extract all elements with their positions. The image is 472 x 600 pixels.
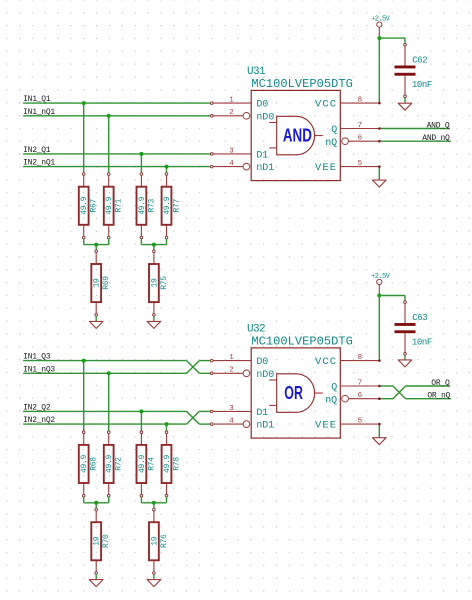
wire IN2_nQ1 pulldown — [166, 167, 168, 174]
pin end dot — [378, 423, 381, 426]
junction — [377, 36, 381, 40]
junction — [82, 359, 86, 363]
wire resistor join right — [108, 239, 110, 245]
svg-text:R67: R67 — [90, 199, 99, 213]
pin end dot — [378, 102, 381, 105]
OR gate symbol inside U32 — [269, 374, 323, 413]
U31 pin 8 VCC — [315, 97, 379, 111]
U32 pin 1 D0 — [210, 354, 268, 368]
wire resistor join left — [83, 239, 85, 245]
wire to U32 pin — [199, 360, 211, 362]
wire +2.5V branch to C63 — [379, 295, 405, 297]
wire to U32 pin — [199, 410, 211, 412]
wire IN2_nQ2 pulldown — [166, 424, 168, 432]
wire IN1_Q3 pulldown — [83, 361, 85, 433]
svg-text:5: 5 — [358, 160, 363, 168]
wire resistor join left — [140, 497, 142, 503]
wire resistor join left — [140, 239, 142, 245]
resistor R74 49.9 — [137, 431, 157, 497]
svg-text:Q: Q — [331, 383, 337, 394]
svg-text:3: 3 — [229, 147, 234, 155]
power +2.5V PWR1 — [371, 15, 391, 38]
U31 pin 6 nQ — [325, 135, 379, 149]
svg-text:4: 4 — [229, 418, 234, 426]
wire C63 to ground — [404, 355, 406, 360]
svg-text:10nF: 10nF — [412, 337, 432, 347]
wire resistor join left — [83, 497, 85, 503]
svg-text:2: 2 — [229, 367, 234, 375]
resistor R78 49.9 — [162, 431, 182, 497]
wire +2.5V to U31 VCC — [378, 38, 380, 103]
junction — [165, 165, 169, 169]
svg-text:nD0: nD0 — [256, 370, 274, 381]
U32 pin 8 VCC — [315, 354, 379, 368]
wire IN1_Q1 pulldown — [83, 103, 85, 174]
U31 pin 1 D0 — [210, 97, 268, 111]
junction — [82, 101, 86, 105]
wire to OR_Q — [406, 385, 450, 387]
wire +2.5V to U32 VCC — [378, 296, 380, 361]
ground — [147, 580, 161, 587]
svg-text:49.9: 49.9 — [163, 454, 172, 473]
wire resistor join bar — [141, 244, 166, 246]
wire resistor join right — [166, 239, 168, 245]
svg-text:8: 8 — [358, 354, 363, 362]
ground — [89, 580, 103, 587]
wire IN2_nQ2 crossover — [187, 411, 200, 424]
wire IN2_Q2 — [23, 410, 187, 412]
capacitor C63 10nF — [395, 301, 432, 355]
svg-text:VCC: VCC — [315, 99, 337, 111]
wire IN1_nQ1 to U31 — [23, 115, 212, 117]
svg-text:19: 19 — [150, 278, 159, 288]
pin end dot — [378, 397, 381, 400]
junction — [94, 501, 98, 505]
svg-text:4: 4 — [229, 160, 234, 168]
wire IN1_nQ3 — [23, 372, 187, 374]
junction — [94, 243, 98, 247]
svg-text:1: 1 — [229, 354, 234, 362]
svg-text:49.9: 49.9 — [138, 196, 147, 215]
U31 pin 7 Q — [331, 122, 379, 136]
wire C62 to ground — [404, 98, 406, 104]
svg-text:Q: Q — [331, 125, 337, 136]
pin end dot — [378, 165, 381, 168]
svg-text:VEE: VEE — [315, 162, 337, 174]
svg-text:nD1: nD1 — [256, 421, 274, 432]
svg-text:R71: R71 — [115, 199, 124, 213]
pin end dot — [378, 127, 381, 130]
svg-text:5: 5 — [358, 418, 363, 426]
wire to U32 pin — [199, 423, 211, 425]
resistor R69 19 — [91, 250, 111, 316]
resistor R76 19 — [149, 508, 169, 574]
svg-text:R70: R70 — [102, 534, 111, 548]
svg-text:VEE: VEE — [315, 420, 337, 432]
junction — [139, 152, 143, 156]
resistor R70 19 — [91, 508, 111, 574]
U32 pin 6 nQ — [325, 392, 379, 406]
wire IN1_nQ1 pulldown — [108, 116, 110, 174]
U31 pin 5 VEE — [315, 160, 379, 174]
wire IN2_nQ1 to U31 — [23, 166, 212, 168]
svg-text:D1: D1 — [256, 151, 268, 162]
svg-text:C62: C62 — [412, 55, 427, 65]
wire join to termination resistor — [95, 245, 97, 252]
wire resistor join bar — [84, 244, 109, 246]
U32 pin 3 D1 — [210, 405, 268, 419]
svg-text:D0: D0 — [256, 100, 268, 111]
ground — [373, 180, 387, 187]
svg-text:R78: R78 — [172, 457, 181, 471]
svg-text:AND_Q: AND_Q — [427, 122, 450, 131]
ground — [398, 103, 412, 110]
svg-text:R74: R74 — [147, 457, 156, 471]
resistor R68 49.9 — [79, 431, 99, 497]
U32 pin 2 nD0 — [210, 367, 274, 381]
svg-text:OR_nQ: OR_nQ — [427, 392, 450, 401]
junction — [152, 501, 156, 505]
wire join to termination resistor — [95, 503, 97, 510]
wire R75 to ground — [153, 316, 155, 321]
junction — [139, 409, 143, 413]
resistor R75 19 — [149, 250, 169, 316]
svg-text:OR: OR — [284, 383, 303, 403]
wire U32 nQ stub — [379, 398, 393, 400]
wire IN2_nQ2 — [23, 423, 187, 425]
ground — [373, 438, 387, 445]
svg-text:49.9: 49.9 — [163, 196, 172, 215]
svg-text:19: 19 — [93, 536, 102, 546]
wire join to termination resistor — [153, 503, 155, 510]
svg-text:10nF: 10nF — [412, 80, 432, 90]
svg-text:D0: D0 — [256, 357, 268, 368]
capacitor C62 10nF — [395, 43, 432, 97]
svg-text:R75: R75 — [160, 276, 169, 290]
IC U32 MC100LVEP05DTG body — [251, 348, 340, 438]
resistor R71 49.9 — [104, 173, 124, 239]
svg-text:nD0: nD0 — [256, 112, 274, 123]
wire IN1_nQ3 pulldown — [108, 373, 110, 432]
svg-text:49.9: 49.9 — [105, 454, 114, 473]
wire Q crossover — [393, 386, 406, 399]
svg-text:49.9: 49.9 — [138, 454, 147, 473]
svg-text:AND_nQ: AND_nQ — [422, 134, 450, 143]
svg-text:3: 3 — [229, 405, 234, 413]
svg-text:MC100LVEP05DTG: MC100LVEP05DTG — [251, 334, 353, 348]
svg-text:19: 19 — [150, 536, 159, 546]
wire IN2_Q1 pulldown — [140, 154, 142, 174]
svg-text:2: 2 — [229, 109, 234, 117]
wire IN1_Q3 — [23, 360, 187, 362]
svg-text:49.9: 49.9 — [105, 196, 114, 215]
junction — [152, 243, 156, 247]
svg-text:49.9: 49.9 — [80, 196, 89, 215]
AND gate symbol inside U31 — [269, 116, 323, 155]
svg-text:1: 1 — [229, 97, 234, 105]
svg-text:7: 7 — [358, 379, 363, 387]
power +2.5V PWR2 — [371, 273, 391, 296]
pin end dot — [378, 385, 381, 388]
svg-text:R77: R77 — [172, 199, 181, 213]
wire join to termination resistor — [153, 245, 155, 252]
U32 pin 4 nD1 — [210, 418, 274, 432]
wire IN2_Q2 pulldown — [140, 411, 142, 432]
pin end dot — [378, 140, 381, 143]
junction — [165, 422, 169, 426]
wire down to C62 — [404, 38, 406, 45]
wire resistor join bar — [84, 502, 109, 504]
wire to OR_nQ — [406, 398, 451, 400]
svg-text:nQ: nQ — [325, 138, 337, 149]
wire IN2_Q2 crossover — [187, 411, 200, 424]
svg-text:OR_Q: OR_Q — [431, 379, 450, 388]
wire U32 VEE to ground — [378, 424, 380, 438]
svg-text:C63: C63 — [412, 313, 427, 323]
wire resistor join right — [166, 497, 168, 503]
svg-text:D1: D1 — [256, 408, 268, 419]
U32 pin 7 Q — [331, 379, 379, 393]
resistor R77 49.9 — [162, 173, 182, 239]
U31 pin 2 nD0 — [210, 109, 274, 123]
IC U31 MC100LVEP05DTG body — [251, 90, 340, 180]
junction — [107, 114, 111, 118]
svg-text:VCC: VCC — [315, 356, 337, 368]
svg-text:49.9: 49.9 — [80, 454, 89, 473]
wire +2.5V branch to C62 — [379, 37, 405, 39]
resistor R73 49.9 — [137, 173, 157, 239]
junction — [377, 294, 381, 298]
svg-text:7: 7 — [358, 122, 363, 130]
wire nQ crossover — [393, 386, 406, 399]
junction — [107, 371, 111, 375]
svg-text:nQ: nQ — [325, 395, 337, 406]
wire IN1_Q3 crossover — [187, 361, 200, 374]
wire R69 to ground — [95, 316, 97, 321]
svg-text:MC100LVEP05DTG: MC100LVEP05DTG — [251, 77, 353, 91]
svg-text:6: 6 — [358, 392, 363, 400]
svg-text:R68: R68 — [90, 457, 99, 471]
wire U31 Q to AND_Q — [379, 128, 450, 130]
svg-text:R72: R72 — [115, 457, 124, 471]
svg-text:R69: R69 — [102, 276, 111, 290]
wire U31 VEE to ground — [378, 167, 380, 181]
svg-text:R73: R73 — [147, 199, 156, 213]
svg-text:AND: AND — [283, 126, 312, 146]
resistor R72 49.9 — [104, 431, 124, 497]
svg-text:19: 19 — [93, 278, 102, 288]
ground — [89, 321, 103, 328]
pin end dot — [378, 359, 381, 362]
U31 pin 3 D1 — [210, 147, 268, 161]
wire IN1_Q1 to U31 — [23, 102, 212, 104]
resistor R67 49.9 — [79, 173, 99, 239]
svg-text:R76: R76 — [160, 534, 169, 548]
ground — [147, 321, 161, 328]
wire to U32 pin — [199, 372, 211, 374]
svg-text:6: 6 — [358, 135, 363, 143]
wire down to C63 — [404, 296, 406, 303]
wire IN1_nQ3 crossover — [187, 361, 200, 374]
wire U31 nQ to AND_nQ — [379, 140, 451, 142]
svg-text:8: 8 — [358, 97, 363, 105]
ground — [398, 360, 412, 367]
U32 pin 5 VEE — [315, 418, 379, 432]
wire R76 to ground — [153, 574, 155, 579]
wire resistor join right — [108, 497, 110, 503]
wire IN2_Q1 to U31 — [23, 153, 212, 155]
wire U32 Q stub — [379, 385, 393, 387]
svg-text:nD1: nD1 — [256, 163, 274, 174]
wire resistor join bar — [141, 502, 166, 504]
wire R70 to ground — [95, 574, 97, 579]
U31 pin 4 nD1 — [210, 160, 274, 174]
